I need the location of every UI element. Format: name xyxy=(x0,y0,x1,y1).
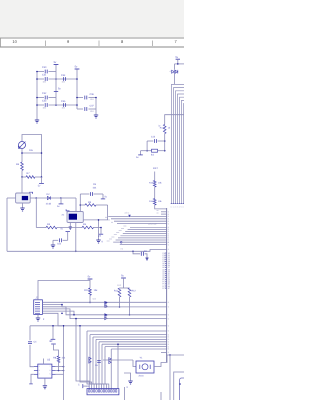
bus wire top 5 xyxy=(180,97,185,203)
bus row low 1 xyxy=(87,330,167,332)
capacitor C33 xyxy=(37,104,44,106)
svg-text:z: z xyxy=(105,355,106,358)
diode D2 xyxy=(47,196,50,200)
fan wire 1 xyxy=(76,319,89,389)
X2 ground stub xyxy=(69,223,71,227)
svg-text:C35: C35 xyxy=(61,100,66,103)
bus wire 2 xyxy=(128,228,167,230)
vertical x170 xyxy=(169,355,171,400)
U3 left pin 2 xyxy=(34,370,38,372)
capacitor C37 xyxy=(77,108,83,110)
svg-text:7: 7 xyxy=(50,365,51,368)
capacitor C36 xyxy=(77,97,83,99)
ground xyxy=(20,208,24,211)
J3 pin 6 xyxy=(101,390,102,393)
J2 pin 4 xyxy=(35,308,40,310)
svg-text:C34: C34 xyxy=(61,74,66,77)
wire X2 right riser xyxy=(79,194,81,212)
J3 pin 3 xyxy=(93,390,94,393)
harness row 6 xyxy=(42,313,62,326)
fan wire 8 xyxy=(102,344,106,388)
zener pair on fan A xyxy=(89,357,91,363)
power stub xyxy=(141,150,148,152)
resistor R7 xyxy=(22,176,26,178)
rail to ground xyxy=(95,98,97,116)
wire row 325.8 xyxy=(30,325,167,327)
resistor R12 xyxy=(128,288,131,297)
J2 pin 2 xyxy=(35,304,40,306)
ground stem xyxy=(98,220,100,240)
connector J2 body xyxy=(34,300,43,315)
divider top bar xyxy=(120,287,130,289)
capacitor C12 xyxy=(158,140,165,142)
zener pair A xyxy=(105,302,107,307)
svg-text:9: 9 xyxy=(168,330,169,333)
power stub 5v xyxy=(60,198,62,204)
wire xyxy=(89,295,91,302)
J3 pin 9 xyxy=(108,390,109,393)
J2 ground stub xyxy=(37,314,39,317)
svg-text:2: 2 xyxy=(175,205,176,208)
zener pair C xyxy=(109,358,111,364)
wire xyxy=(30,345,34,367)
resistor R11 xyxy=(118,288,121,297)
wire xyxy=(129,297,131,315)
resistor R9 branch xyxy=(80,204,85,206)
wire xyxy=(154,187,156,199)
wire xyxy=(35,198,37,228)
fan wire 6 xyxy=(96,339,101,388)
svg-text:9: 9 xyxy=(168,314,169,317)
wire xyxy=(21,171,23,178)
wire xyxy=(67,232,69,241)
fan wire 5 xyxy=(93,337,99,389)
wire row 360 with zeners xyxy=(103,359,133,361)
svg-text:10: 10 xyxy=(12,39,17,44)
power 5V rail A xyxy=(55,65,57,105)
J2 pin 5 xyxy=(35,310,40,312)
wire xyxy=(57,227,82,229)
capacitor on fan xyxy=(97,361,101,363)
U3 left pin 1 xyxy=(34,366,38,368)
bus wire top 7 xyxy=(183,104,186,204)
spine pin stubs mid block xyxy=(165,253,167,288)
J2 pin 3 xyxy=(35,306,40,308)
power 5V rail B xyxy=(76,70,78,110)
bus wire b1 xyxy=(120,244,167,246)
U3 right pin 3 xyxy=(52,373,56,375)
wire xyxy=(175,63,185,65)
svg-text:RST: RST xyxy=(153,167,158,170)
C8 power stub xyxy=(102,194,104,199)
svg-text:R12: R12 xyxy=(132,289,137,292)
crystal X1 fill xyxy=(22,196,28,200)
harness row 5 xyxy=(42,311,74,315)
ruler tick 2 xyxy=(98,41,100,47)
svg-text:C33: C33 xyxy=(42,99,47,102)
capacitor C30 xyxy=(37,71,44,73)
wire row xyxy=(108,216,166,218)
stub at bottom xyxy=(160,392,162,400)
wire U3 right pin3 xyxy=(56,373,64,375)
wire row 2 xyxy=(111,218,167,220)
J3 pin 8 xyxy=(106,390,107,393)
connector J4 body xyxy=(174,372,190,403)
J2 pin 6 xyxy=(35,312,40,314)
svg-text:9: 9 xyxy=(168,222,169,225)
pin numbers right of spine xyxy=(168,211,169,355)
resistor R15 xyxy=(153,180,156,187)
capacitor C35 xyxy=(64,103,66,107)
left rail long xyxy=(6,198,8,251)
fan wire 10 xyxy=(110,349,112,389)
svg-text:9: 9 xyxy=(168,243,169,246)
J3 pin 4 xyxy=(96,390,97,393)
power 5v R10 xyxy=(88,278,93,280)
power 5v top right xyxy=(176,58,180,60)
svg-text:2mm: 2mm xyxy=(139,374,144,377)
svg-text:R10: R10 xyxy=(84,289,89,292)
IC U3 body xyxy=(38,364,52,378)
bus wire top 1 xyxy=(172,84,185,203)
wire down to X2 xyxy=(75,198,77,212)
capacitor C7 xyxy=(63,239,68,241)
stub bottom right of J3 xyxy=(124,387,126,400)
svg-text:4: 4 xyxy=(39,373,40,376)
capacitor C31 xyxy=(37,78,44,80)
svg-text:5: 5 xyxy=(181,205,182,208)
J4 junction xyxy=(179,383,181,385)
vertical rail x63.5 xyxy=(63,326,65,400)
X2 pin mark xyxy=(66,209,69,211)
J3 pin 10 xyxy=(111,390,112,393)
U3 bottom stub xyxy=(44,378,46,385)
wire X1 to node xyxy=(30,197,36,199)
svg-text:4: 4 xyxy=(179,205,180,208)
wire row 4 xyxy=(117,223,167,225)
svg-text:C31: C31 xyxy=(42,73,47,76)
wire xyxy=(164,134,166,151)
resistor R5 xyxy=(82,226,94,229)
J3 pin 1 xyxy=(89,390,90,393)
MCU header spine xyxy=(166,208,168,362)
bus wire top 3 xyxy=(176,91,185,204)
J3 pin 12 xyxy=(115,390,116,393)
fan wire 4 xyxy=(90,335,97,389)
toolbar band xyxy=(0,0,184,37)
wire row 355 xyxy=(167,354,184,356)
wire xyxy=(119,297,121,307)
wire to Y1 xyxy=(133,360,136,367)
svg-text:3: 3 xyxy=(177,205,178,208)
resistor R16 xyxy=(153,199,156,206)
bus wire top 4 xyxy=(178,94,185,204)
svg-text:4148: 4148 xyxy=(46,202,52,205)
ground xyxy=(51,245,55,248)
svg-text:5: 5 xyxy=(50,373,51,376)
crystal X1 body xyxy=(16,193,31,203)
J2 pin 1 xyxy=(35,301,40,303)
crystal X2 fill xyxy=(69,214,77,220)
wire left chain xyxy=(29,326,31,341)
wire xyxy=(36,197,61,199)
loop return wire xyxy=(83,205,107,220)
U3 top stub xyxy=(42,359,44,365)
J3 pin 2 xyxy=(91,390,92,393)
svg-text:C36: C36 xyxy=(90,93,95,96)
bus wire top 2 xyxy=(174,88,185,204)
wire row 251 xyxy=(7,250,167,252)
wire X1 left pin xyxy=(7,197,16,199)
vertical x118 xyxy=(117,344,119,388)
svg-text:C37: C37 xyxy=(90,104,95,107)
bus wire 7 xyxy=(116,239,167,241)
svg-text:9: 9 xyxy=(168,348,169,351)
bus wire 4 xyxy=(123,233,167,235)
harness row 1 xyxy=(42,301,166,303)
wire row 3 xyxy=(114,220,167,222)
J3 pin 7 xyxy=(103,390,104,393)
J4 inner xyxy=(180,378,189,403)
small ground xyxy=(145,258,148,260)
svg-text:9: 9 xyxy=(168,248,169,251)
svg-text:d: d xyxy=(170,70,171,73)
bus wire 8 xyxy=(113,241,166,243)
capacitor C9 branch xyxy=(133,251,140,254)
protection diodes D5 xyxy=(174,64,176,70)
zener pair B xyxy=(105,315,107,319)
svg-text:1k5: 1k5 xyxy=(29,149,34,152)
svg-text:1: 1 xyxy=(173,205,174,208)
bus row low 2 xyxy=(90,334,167,336)
power stub mid xyxy=(52,326,54,339)
U3 right pin 1 xyxy=(52,366,56,368)
wire xyxy=(21,149,23,163)
wire top loop xyxy=(22,135,42,177)
J3 power xyxy=(82,384,84,388)
bus row low 4 xyxy=(96,338,167,340)
wire corner xyxy=(146,141,148,151)
ground Y1 xyxy=(124,373,131,381)
svg-text:9: 9 xyxy=(168,351,169,354)
bus wire top 6 xyxy=(182,100,185,203)
ground xyxy=(94,115,98,118)
spine top pins xyxy=(161,211,167,213)
node wire mid xyxy=(22,152,42,154)
capacitor C32 xyxy=(37,97,44,99)
svg-text:xxx: xxx xyxy=(107,240,110,243)
bus wire 6 xyxy=(118,237,167,239)
wire xyxy=(174,74,176,85)
wire row 349 xyxy=(111,348,166,350)
svg-text:3: 3 xyxy=(39,369,40,372)
bus row low 7 xyxy=(105,346,167,348)
wire xyxy=(61,197,76,199)
power 5v divider xyxy=(121,277,126,279)
current source B1 xyxy=(19,142,26,149)
bus end labels xyxy=(171,205,184,208)
wire into X1 xyxy=(21,177,23,193)
X2 load wire down xyxy=(75,223,77,252)
J3 pin 11 xyxy=(113,390,114,393)
svg-text:C32: C32 xyxy=(42,92,47,95)
power rail wire xyxy=(36,72,38,121)
connector J3 body xyxy=(87,389,119,395)
fan wire 2 xyxy=(80,326,92,389)
bus row low 3 xyxy=(93,336,167,338)
unconnected pin labels block xyxy=(162,252,171,290)
svg-text:9: 9 xyxy=(168,325,169,328)
J3 pin 5 xyxy=(98,390,99,393)
fan wire 9 xyxy=(105,347,109,389)
capacitor C8 branch xyxy=(80,193,89,195)
fan wire 3 xyxy=(87,331,94,389)
junction xyxy=(132,251,134,253)
svg-text:2: 2 xyxy=(39,365,40,368)
ruler tick 3 xyxy=(152,41,154,47)
svg-text:9: 9 xyxy=(168,306,169,309)
wire xyxy=(154,172,156,181)
harness row 2 xyxy=(42,305,166,307)
Y1 inner xyxy=(142,364,148,370)
J2 top wire xyxy=(38,281,90,300)
bus wire b2 with NC circle xyxy=(120,241,122,243)
resistor R6 xyxy=(21,162,24,171)
wire bend from bus xyxy=(165,115,184,125)
wire xyxy=(94,227,102,229)
U3 right pin 2 xyxy=(52,370,56,372)
svg-text:6: 6 xyxy=(183,205,184,208)
wire xyxy=(89,279,91,288)
wire xyxy=(58,363,60,371)
wire Y1 right xyxy=(154,355,167,367)
gnd stub xyxy=(52,240,54,244)
bus row low 5 xyxy=(99,341,167,343)
svg-text:0: 0 xyxy=(171,205,172,208)
resistor R10 xyxy=(89,288,92,295)
svg-text:6: 6 xyxy=(50,369,51,372)
X1 bottom wire xyxy=(22,203,24,208)
svg-text:C12: C12 xyxy=(151,136,156,139)
capacitor C34 xyxy=(64,77,66,81)
bus wire 3 xyxy=(125,231,166,233)
bus wire 5 xyxy=(120,235,166,237)
sheet border ruler xyxy=(0,38,184,40)
svg-text:9: 9 xyxy=(168,301,169,304)
wire U3 right pins xyxy=(56,366,64,368)
harness row 3 xyxy=(42,307,166,315)
fan wire 7 xyxy=(99,342,104,389)
wire U3 left pin3 xyxy=(31,374,34,383)
U3 left pin 3 xyxy=(34,373,38,375)
ground xyxy=(96,240,100,243)
wire xyxy=(145,254,147,258)
harness row 4 xyxy=(42,309,166,319)
wire xyxy=(155,205,167,209)
bus end ticks xyxy=(171,203,185,205)
component FB1 xyxy=(147,150,151,152)
ground xyxy=(35,120,39,123)
svg-text:p0 p1 p2: p0 p1 p2 xyxy=(149,222,158,225)
ruler tick 1 xyxy=(45,41,47,47)
stub down with bar xyxy=(100,228,102,234)
bus row low 6 xyxy=(102,343,167,345)
resistor R3 xyxy=(46,226,57,229)
crystal X2 body xyxy=(67,212,83,223)
svg-text:C30: C30 xyxy=(42,66,47,69)
svg-text:9: 9 xyxy=(168,317,169,320)
bus wire 1 xyxy=(130,226,167,228)
resistor R13 xyxy=(163,124,166,133)
ground xyxy=(43,386,47,389)
junction arrow xyxy=(128,215,131,218)
capacitor C4 xyxy=(28,342,32,344)
wire row 352 xyxy=(161,352,167,354)
X1 pin1 mark xyxy=(29,192,32,194)
power stub down xyxy=(41,177,43,183)
svg-text:xx: xx xyxy=(157,212,159,215)
crystal Y1 body xyxy=(136,361,154,373)
power 5v to R8 xyxy=(51,343,56,345)
ground xyxy=(36,318,40,321)
resistor R8 xyxy=(57,356,60,363)
power bar C-branch xyxy=(66,231,70,233)
